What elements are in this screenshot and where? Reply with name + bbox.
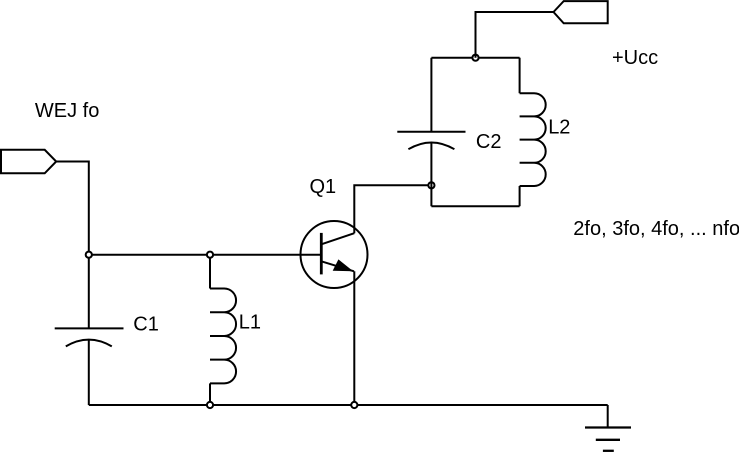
wire C2 bottom lead to tank bottom <box>430 142 432 206</box>
svg-text:L1: L1 <box>239 312 261 334</box>
wire tank left branch upper (C2 top lead) <box>430 58 432 132</box>
wire L1 bottom lead <box>209 383 211 405</box>
transistor Q1 circle <box>301 221 368 288</box>
transistor Q1 emitter diagonal <box>321 261 354 271</box>
svg-text:Q1: Q1 <box>310 176 337 198</box>
svg-text:+Ucc: +Ucc <box>612 47 658 69</box>
wire emitter down <box>353 271 355 405</box>
input connector flag WEJ <box>1 150 56 174</box>
node junction collector tank <box>428 182 434 188</box>
output connector flag Ucc <box>554 1 608 23</box>
svg-text:C2: C2 <box>476 131 502 153</box>
node junction L1 top <box>207 252 213 258</box>
inductor L2 <box>520 93 546 186</box>
capacitor C2 plate <box>397 131 465 133</box>
wire C1 bottom lead <box>88 340 90 405</box>
wire bottom ground rail <box>89 404 608 406</box>
wire tank bottom horizontal <box>431 205 519 207</box>
ground lead vertical <box>607 405 609 428</box>
wire L2 top lead <box>519 58 521 93</box>
wire tank top horizontal <box>431 57 519 59</box>
ground bar 3 <box>603 450 614 452</box>
node junction L1 bottom <box>207 402 213 408</box>
wire tank right branch lower (L2 bottom lead) <box>519 186 521 206</box>
inductor L1 <box>210 289 236 384</box>
ground bar 1 <box>585 426 631 428</box>
node junction emitter bottom <box>351 402 357 408</box>
transistor Q1 base bar <box>320 233 323 275</box>
wire L1 top lead <box>209 255 211 289</box>
svg-text:WEJ fo: WEJ fo <box>35 100 99 122</box>
capacitor C1 curved plate <box>66 340 112 347</box>
svg-text:L2: L2 <box>548 117 570 139</box>
svg-text:2fo, 3fo, 4fo, ... nfo: 2fo, 3fo, 4fo, ... nfo <box>573 218 739 240</box>
transistor Q1 collector diagonal <box>321 233 354 244</box>
capacitor C1 plate <box>55 327 124 329</box>
wire tank top to output flag <box>476 12 554 58</box>
node junction tank top <box>472 55 478 61</box>
node junction left <box>86 252 92 258</box>
wire base rail horizontal <box>89 254 321 256</box>
wire input flag to left vertical <box>56 162 89 329</box>
capacitor C2 curved plate <box>408 142 454 149</box>
ground bar 2 <box>596 439 620 441</box>
svg-text:C1: C1 <box>133 314 159 336</box>
wire collector up and right <box>354 185 431 233</box>
transistor Q1 emitter arrow <box>333 259 354 271</box>
